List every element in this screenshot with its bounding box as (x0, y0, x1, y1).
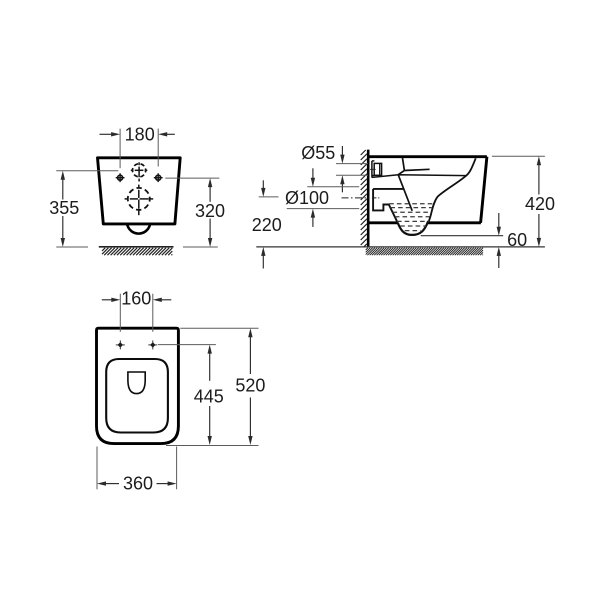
svg-text:Ø55: Ø55 (301, 143, 335, 163)
side view: water inlet fitting (371, 161, 373, 178)
dimension D100: extension lines (307, 186, 359, 188)
plan view: seat opening (106, 359, 168, 433)
front view: top hole centerlines (138, 162, 140, 165)
plan view: right seat fixing marker (150, 342, 155, 347)
svg-text:Ø100: Ø100 (285, 188, 329, 208)
dimension 355: extension lines (56, 170, 118, 172)
front view: right bolt hole (156, 175, 161, 180)
dimension 320: extension line (165, 177, 219, 179)
side view: floor hatching (365, 247, 367, 249)
dimension D100: centerline (342, 197, 370, 199)
front view: top fixing hole (dashed circle) (133, 164, 146, 177)
dimension 520: extension line (180, 327, 258, 329)
plan view: left seat fixing marker (118, 342, 123, 347)
svg-text:445: 445 (194, 386, 224, 406)
dimension 60: extension line from sump bottom (421, 235, 504, 237)
dimension 445: extension lines (158, 344, 216, 346)
side view: flush rim distributor wedge (398, 169, 429, 174)
side view: toilet outline top edge (368, 155, 487, 158)
dimension 520: dimension line with arrows (248, 328, 252, 337)
side view: toilet outline bottom edge (right of sump) (428, 221, 481, 224)
side view: rim / shelf line (372, 175, 466, 178)
side view: wall line (367, 150, 370, 247)
dimension 420: dimension line with arrows (537, 156, 541, 165)
svg-text:60: 60 (507, 230, 527, 250)
side view: toilet outline right edge (481, 157, 487, 223)
dimension 160: extension lines (119, 294, 121, 332)
dimension D55: arrows (340, 155, 344, 164)
dimension 420: extension line (492, 155, 545, 157)
dimension 160: arrows (111, 298, 120, 302)
plan view: toilet outline (97, 328, 179, 443)
side view: floor line (256, 246, 545, 248)
svg-text:355: 355 (49, 198, 79, 218)
dimension 60: arrows (497, 227, 501, 236)
svg-text:220: 220 (252, 215, 282, 235)
dimension 220: arrows (261, 188, 265, 197)
svg-text:320: 320 (195, 201, 225, 221)
dimension 180: extension lines (119, 129, 121, 169)
side view: water surface dashes (389, 203, 433, 205)
svg-text:420: 420 (525, 194, 555, 214)
svg-text:360: 360 (123, 474, 153, 494)
front view: ground hatching (101, 247, 103, 249)
side view: bowl back inner wall (398, 175, 412, 211)
front view: left bolt hole (118, 175, 123, 180)
dimension 355: dimension line with arrows (61, 171, 65, 180)
front view: bottom outlet bump (127, 224, 149, 233)
svg-text:160: 160 (121, 288, 151, 308)
dimension 360: dimension line with arrows (97, 481, 106, 485)
dimension D55: extension lines (336, 163, 368, 165)
plan view: flush water well (128, 372, 145, 394)
svg-text:180: 180 (125, 124, 155, 144)
dimension 360: extension lines (96, 447, 98, 490)
dimension 220: reference tick (259, 196, 279, 198)
dimension 180: arrows (111, 132, 120, 136)
side view: bowl back top line (403, 158, 405, 171)
side view: wall hatching (360, 149, 362, 151)
dimension D100: arrows (311, 178, 315, 187)
svg-text:520: 520 (235, 376, 265, 396)
front view: ground line (99, 246, 174, 248)
front view: toilet pan outline (98, 158, 181, 224)
side view: toilet outline bottom edge (left of sump) (368, 221, 398, 224)
dimension 320: dimension line with arrows (208, 178, 212, 187)
front view: drain hole centerlines (138, 185, 140, 189)
side view: outlet centerline tick (372, 197, 379, 199)
dimension 445: dimension line with arrows (208, 345, 212, 354)
side view: bowl front inner S-curve (429, 158, 476, 221)
side view: sump (bowl bottom U) (398, 221, 428, 235)
side view: drain outlet step (373, 189, 403, 223)
front view: drain hole (large dashed circle) (128, 188, 150, 210)
